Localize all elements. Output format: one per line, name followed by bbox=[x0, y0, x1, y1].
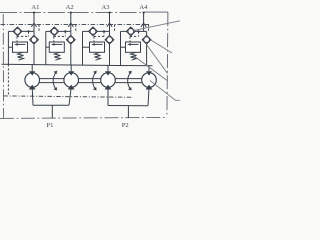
svg-text:A3: A3 bbox=[101, 4, 110, 11]
svg-text:P2: P2 bbox=[122, 122, 129, 129]
svg-text:P1: P1 bbox=[46, 122, 53, 129]
svg-text:A2: A2 bbox=[66, 4, 74, 11]
svg-text:A1: A1 bbox=[31, 4, 39, 11]
svg-text:A4: A4 bbox=[139, 4, 148, 11]
